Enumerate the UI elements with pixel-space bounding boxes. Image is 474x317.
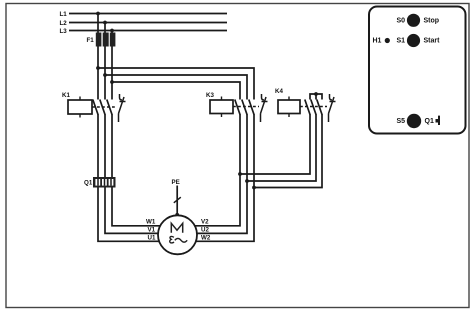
- junction dot PE at motor: [175, 213, 179, 217]
- wire K4 contact2 branch: [247, 114, 316, 181]
- svg-text:L2: L2: [60, 20, 68, 27]
- buzzer icon: [436, 116, 441, 125]
- svg-text:Stop: Stop: [424, 17, 440, 24]
- wire K3 contact3 to motor W2: [192, 114, 254, 241]
- K1 aux contact: [119, 94, 126, 122]
- K3 linkage dashed: [233, 106, 259, 108]
- K1 linkage dashed: [92, 106, 117, 108]
- junction dot L3 tap: [110, 29, 114, 33]
- overload relay Q1 body: [93, 177, 116, 188]
- wire branch L2 to K3: [105, 75, 247, 100]
- junction dot branch 3: [110, 80, 114, 84]
- contactor K1 coil terminals: [79, 97, 81, 118]
- K4 aux contact: [329, 94, 336, 122]
- junction dot branch 2: [103, 73, 107, 77]
- wire branch L1 to K3: [98, 68, 254, 100]
- K3 main contact blade 2: [242, 100, 247, 115]
- Q1 heater ticks: [98, 179, 111, 186]
- wire K3 contact1 to motor V2: [192, 114, 240, 226]
- wire K4 contact1 branch: [240, 114, 310, 174]
- Q1 window 2: [102, 179, 107, 186]
- wire K1 to motor U1 (left outer): [98, 114, 163, 241]
- button S1 (Start): [407, 34, 420, 47]
- wire K1 to motor W1 (left inner): [112, 114, 163, 226]
- motor tilde: [175, 238, 187, 242]
- motor M1 circle: [158, 215, 197, 254]
- svg-text:S0: S0: [397, 17, 406, 24]
- Q1 window 1: [95, 179, 100, 186]
- control panel box: [369, 7, 466, 134]
- wire L3 drop to F1: [111, 31, 113, 34]
- K4 main contact blade 2: [311, 100, 316, 115]
- K3 main contact blade 3: [249, 100, 254, 115]
- junction dot W2/K4: [252, 186, 256, 190]
- wire L2 horizontal: [69, 22, 227, 24]
- svg-text:S1: S1: [397, 38, 406, 45]
- K4 main contact blade 1: [305, 100, 310, 115]
- svg-text:H1: H1: [373, 38, 382, 45]
- contactor K3 coil box: [210, 100, 233, 114]
- svg-text:Q1: Q1: [84, 180, 93, 187]
- PE conductor slash: [174, 197, 181, 203]
- svg-text:V2: V2: [201, 218, 209, 225]
- contactor K4 coil box: [278, 100, 300, 114]
- K4 main contact blade 3: [317, 100, 322, 115]
- fuse F1 element 1: [96, 33, 102, 47]
- wire L3 horizontal: [69, 30, 227, 32]
- lamp H1 dot: [385, 38, 390, 43]
- button S5: [407, 114, 421, 128]
- K4 linkage dashed: [300, 106, 327, 108]
- svg-text:K4: K4: [275, 88, 283, 95]
- wire L1 horizontal: [69, 13, 227, 15]
- wire PE to motor: [176, 186, 178, 215]
- junction dot U2/K4: [245, 179, 249, 183]
- contactor K1 coil box: [68, 100, 92, 114]
- svg-text:U2: U2: [201, 227, 209, 234]
- button S0 (Stop): [407, 14, 420, 27]
- junction dot V2/K4: [238, 172, 242, 176]
- junction dot L1 tap: [96, 12, 100, 16]
- svg-text:W1: W1: [146, 218, 156, 225]
- motor letter M: [171, 223, 182, 232]
- fuse F1 element 2: [103, 33, 109, 47]
- svg-text:W2: W2: [201, 235, 211, 242]
- svg-text:K3: K3: [206, 92, 214, 99]
- wire L1 drop to F1: [97, 14, 99, 34]
- contactor K4 coil terminals: [288, 97, 290, 118]
- svg-text:Start: Start: [424, 38, 441, 45]
- svg-text:V1: V1: [148, 227, 156, 234]
- motor 3 (mirrored): [170, 237, 174, 243]
- svg-text:K1: K1: [62, 92, 70, 99]
- K3 main contact blade 1: [235, 100, 240, 115]
- K1 main contact blade 1: [93, 100, 98, 115]
- svg-text:L3: L3: [60, 28, 68, 35]
- svg-text:U1: U1: [148, 235, 156, 242]
- svg-text:F1: F1: [87, 37, 95, 44]
- svg-text:L1: L1: [60, 11, 68, 18]
- K4 star bridge: [310, 94, 322, 100]
- wire F1 to K1 contact 1: [97, 46, 99, 100]
- wire K3 contact2 to motor U2: [192, 114, 247, 233]
- wire branch L3 to K3: [112, 82, 240, 100]
- wire F1 to K1 contact 2: [104, 46, 106, 100]
- junction dot branch 1: [96, 66, 100, 70]
- svg-text:S5: S5: [397, 118, 406, 125]
- K1 main contact blade 2: [100, 100, 105, 115]
- junction dot K4 bridge: [314, 92, 318, 96]
- svg-text:Q1: Q1: [425, 118, 434, 125]
- svg-text:PE: PE: [172, 179, 180, 186]
- K4 bridge stub: [315, 94, 317, 100]
- wire F1 to K1 contact 3: [111, 46, 113, 100]
- contactor K3 coil terminals: [221, 97, 223, 118]
- wire K1 to motor V1 (left middle): [105, 114, 163, 233]
- fuse F1 element 3: [110, 33, 116, 47]
- wire L2 drop to F1: [104, 23, 106, 34]
- Q1 window 3: [109, 179, 114, 186]
- junction dot L2 tap: [103, 21, 107, 25]
- wire K4 contact3 branch: [254, 114, 322, 188]
- K3 aux contact: [261, 94, 268, 122]
- K1 main contact blade 3: [107, 100, 112, 115]
